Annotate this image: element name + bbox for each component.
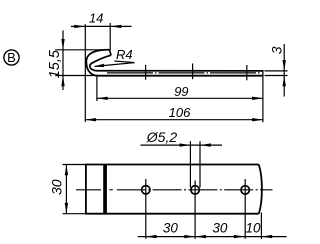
dim 15,5 bottom arrow: [61, 76, 64, 87]
dim 3 top arrow: [283, 60, 286, 71]
dim 15,5 ext top line: [55, 49, 108, 51]
view label B circle: [4, 50, 19, 65]
hole 1 centerline vertical: [145, 179, 147, 239]
svg-text:30: 30: [163, 220, 179, 235]
hole 1: [142, 186, 150, 194]
dim 99 right arrow: [252, 97, 263, 100]
dim 99 dimension line: [97, 97, 263, 99]
dim O5,2 left arrow: [180, 143, 191, 146]
hook profile outer contour: [86, 50, 263, 76]
dim 14 ext line right: [109, 23, 111, 50]
dim 99 left ext line: [96, 76, 98, 101]
dim 15,5 top arrow: [61, 39, 64, 50]
dim 30 left bottom ext: [63, 213, 86, 215]
dim 30 left top arrow: [65, 165, 68, 176]
hole 2 centerline vertical: [194, 181, 196, 239]
hole 3: [241, 186, 249, 194]
chain right ext line: [260, 213, 262, 239]
chain arrow at hole3: [234, 235, 245, 238]
strip right end edge: [262, 70, 264, 76]
hole tick 2 (side view): [192, 64, 194, 80]
chain arrow at hole1: [146, 235, 157, 238]
hook profile inner contour: [90, 55, 263, 71]
hook tip end cut: [109, 50, 111, 55]
dim 99 left arrow: [97, 97, 108, 100]
svg-text:15,5: 15,5: [47, 49, 63, 78]
dim O5,2 right arrow: [200, 143, 211, 146]
dim 15,5 dimension line: [62, 30, 64, 90]
bottom chain dimension line: [138, 236, 287, 238]
dim 3 ext bottom line: [265, 75, 288, 77]
strip centerline dash-dot: [107, 72, 262, 74]
dim O5,2 dimension line: [141, 144, 223, 146]
dim O5,2 left ext: [189, 141, 191, 187]
plate outline: [86, 165, 262, 214]
svg-text:Ø5,2: Ø5,2: [146, 129, 178, 145]
dim 106 right arrow: [252, 118, 263, 121]
dim 14 left arrow: [74, 25, 85, 28]
dim 14 dimension line: [71, 25, 132, 27]
dim 3 ext top line: [265, 70, 288, 72]
dim 106 left arrow: [85, 118, 96, 121]
svg-text:99: 99: [174, 84, 188, 99]
svg-text:R4: R4: [116, 47, 133, 62]
dim 15,5 ext bottom line: [55, 75, 98, 77]
dim 3 dimension line: [283, 44, 285, 97]
hole tick 1 (side view): [145, 65, 147, 80]
hole 2: [191, 186, 199, 194]
svg-text:30: 30: [49, 179, 65, 195]
hole tick 3 (side view): [246, 65, 248, 80]
svg-text:10: 10: [245, 220, 261, 235]
svg-text:B: B: [7, 50, 16, 65]
svg-text:106: 106: [169, 105, 191, 120]
dim 30 left top ext: [63, 164, 86, 166]
dim 30 left dimension line: [65, 165, 67, 214]
bend edge thick bar: [103, 165, 107, 214]
dim 14 right arrow: [111, 25, 122, 28]
R4 arrow: [93, 64, 104, 67]
svg-text:3: 3: [268, 46, 284, 54]
chain arrow at right end (outside): [261, 235, 272, 238]
R4 leader line: [95, 63, 135, 67]
dim 106 dimension line: [85, 119, 263, 121]
dim 14 ext line left (shared with 106): [84, 24, 86, 122]
svg-text:30: 30: [212, 220, 228, 235]
svg-text:14: 14: [89, 10, 103, 25]
plate centerline dash-dot: [76, 189, 113, 191]
dim 30 left bottom arrow: [65, 203, 68, 214]
R4 text underline: [115, 61, 135, 63]
hole 3 centerline vertical: [244, 179, 246, 239]
dim 3 bottom arrow: [283, 76, 286, 87]
dim 99/106 right ext line (strip end): [262, 76, 264, 122]
chain arrows at hole2: [184, 235, 195, 238]
dim O5,2 right ext: [199, 141, 201, 187]
